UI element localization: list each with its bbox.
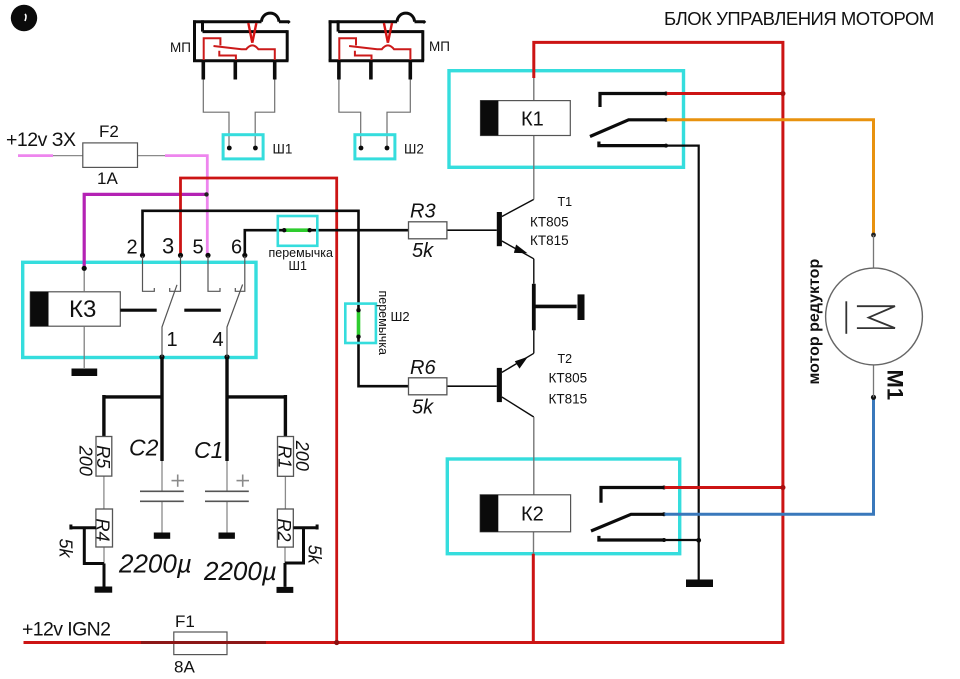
- svg-text:R6: R6: [410, 357, 436, 379]
- svg-text:200: 200: [76, 445, 96, 476]
- svg-text:М1: М1: [883, 370, 908, 401]
- svg-text:Ш2: Ш2: [391, 309, 410, 324]
- svg-text:БЛОК УПРАВЛЕНИЯ МОТОРОМ: БЛОК УПРАВЛЕНИЯ МОТОРОМ: [664, 8, 934, 29]
- svg-text:Ш2: Ш2: [404, 142, 424, 157]
- svg-text:5: 5: [193, 237, 204, 259]
- svg-text:К2: К2: [521, 504, 544, 526]
- svg-text:Ш1: Ш1: [289, 259, 307, 273]
- svg-text:С2: С2: [129, 435, 159, 461]
- svg-text:R1: R1: [274, 445, 294, 468]
- svg-text:С1: С1: [194, 437, 223, 463]
- svg-text:+12v IGN2: +12v IGN2: [22, 619, 110, 641]
- svg-text:Ш1: Ш1: [273, 142, 293, 157]
- svg-text:2200µ: 2200µ: [203, 556, 277, 586]
- svg-text:КТ805: КТ805: [549, 371, 588, 386]
- svg-text:перемычка: перемычка: [376, 291, 390, 355]
- svg-text:Т1: Т1: [558, 195, 573, 209]
- svg-text:6: 6: [231, 237, 242, 259]
- svg-text:5k: 5k: [56, 539, 76, 559]
- svg-text:R2: R2: [274, 519, 294, 542]
- svg-text:R4: R4: [93, 519, 113, 542]
- svg-text:F1: F1: [175, 612, 195, 631]
- svg-text:Т2: Т2: [558, 352, 573, 366]
- svg-text:КТ805: КТ805: [530, 215, 569, 230]
- svg-text:2: 2: [127, 237, 138, 259]
- svg-text:4: 4: [213, 329, 224, 351]
- svg-text:5k: 5k: [412, 397, 434, 419]
- svg-text:МП: МП: [429, 39, 450, 54]
- svg-text:МП: МП: [170, 40, 191, 55]
- svg-text:200: 200: [292, 440, 312, 471]
- svg-text:1: 1: [167, 329, 178, 351]
- svg-text:К1: К1: [521, 109, 544, 131]
- svg-text:+12v ЗХ: +12v ЗХ: [6, 129, 76, 151]
- svg-text:5k: 5k: [412, 240, 434, 262]
- svg-text:КТ815: КТ815: [530, 233, 569, 248]
- svg-text:2200µ: 2200µ: [118, 549, 192, 579]
- svg-text:КТ815: КТ815: [549, 392, 588, 407]
- svg-text:3: 3: [162, 234, 174, 259]
- svg-text:мотор редуктор: мотор редуктор: [806, 259, 823, 385]
- svg-text:F2: F2: [99, 122, 119, 141]
- svg-text:1A: 1A: [97, 169, 118, 188]
- svg-text:перемычка: перемычка: [269, 246, 333, 260]
- svg-text:R3: R3: [410, 201, 436, 223]
- svg-text:8A: 8A: [174, 658, 195, 677]
- svg-text:К3: К3: [69, 296, 96, 323]
- svg-text:5k: 5k: [305, 545, 325, 565]
